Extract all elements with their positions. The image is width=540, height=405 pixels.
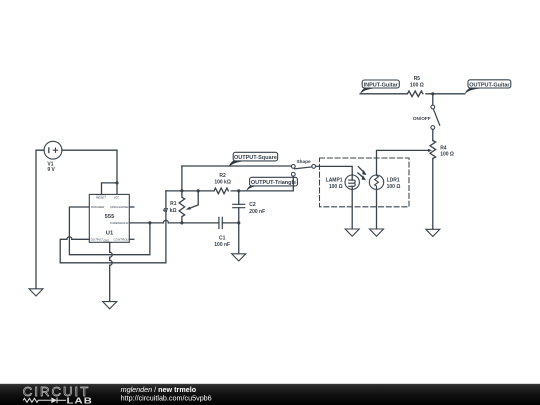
R1 label: [163, 201, 177, 214]
wire C1 node to ground: [238, 223, 240, 254]
svg-text:C2: C2: [249, 202, 256, 208]
U1 name labels: [105, 214, 115, 237]
R4 wiper arrowhead: [428, 149, 432, 152]
wire LAMP1 to ground: [351, 189, 353, 229]
wire TRIGGER to THRESHOLD loop: [69, 207, 149, 255]
svg-text:100 Ω: 100 Ω: [387, 184, 401, 190]
svg-text:9 V: 9 V: [47, 167, 55, 173]
svg-text:100 Ω: 100 Ω: [410, 83, 424, 89]
node VCC/RESET junction: [115, 181, 118, 184]
wire junction to ON/OFF switch: [432, 94, 434, 105]
ground G2: [103, 302, 117, 309]
wire hop GND over TRIGGER row: [110, 252, 113, 257]
op-amp U1 555 box: [89, 194, 129, 242]
svg-text:R1: R1: [170, 201, 177, 207]
svg-text:LAB: LAB: [67, 397, 94, 405]
svg-text:CONTROL: CONTROL: [114, 238, 129, 242]
U1 RESET overline: [96, 194, 105, 196]
photoresistor LDR1: [369, 175, 383, 189]
voltage source V1: [44, 141, 62, 159]
switch Shape SPDT: [291, 165, 315, 177]
C2 label: [249, 202, 265, 215]
footer bar: [0, 384, 540, 405]
node R1 wiper junction: [197, 189, 200, 192]
flag OUTPUT-Guitar: [465, 80, 511, 95]
ground G6: [426, 229, 440, 236]
wire through flag (redrawn over): [292, 176, 294, 186]
svg-text:100 Ω: 100 Ω: [440, 151, 454, 157]
LDR1 label: [387, 178, 401, 191]
svg-text:555: 555: [105, 214, 115, 220]
svg-text:Shape: Shape: [297, 159, 311, 164]
C1 label: [214, 236, 230, 248]
svg-text:GND: GND: [103, 240, 109, 243]
wire GND pin down: [109, 242, 111, 301]
wire OUTPUT loop: [60, 191, 166, 263]
wire THRESHOLD row: [129, 222, 238, 224]
svg-text:INPUT-Guitar: INPUT-Guitar: [364, 83, 399, 89]
wire Shape common to LAMP1: [316, 166, 353, 175]
svg-text:U1: U1: [106, 231, 114, 237]
wire hop GND over OUTPUT row: [110, 260, 113, 265]
svg-text:100 kΩ: 100 kΩ: [214, 180, 231, 186]
lamp LAMP1: [345, 175, 359, 189]
svg-text:LDR1: LDR1: [387, 178, 400, 184]
wire R4 to ground: [432, 159, 434, 230]
resistor R2: [214, 188, 228, 194]
R2 label: [214, 173, 231, 186]
svg-text:RESET: RESET: [96, 195, 107, 199]
svg-text:DISCHARGE: DISCHARGE: [110, 205, 129, 209]
wire hop on OUTPUT over TRIGGER: [67, 237, 72, 240]
svg-text:100 Ω: 100 Ω: [329, 184, 343, 190]
capacitor C2: [233, 204, 245, 207]
wire OUTPUT-Square row: [182, 165, 292, 167]
svg-text:LAMP1: LAMP1: [326, 178, 343, 184]
wire VCC column: [116, 150, 118, 194]
svg-text:TRIGGER: TRIGGER: [91, 205, 106, 209]
svg-text:R2: R2: [219, 173, 226, 179]
svg-text:THRESHOLD: THRESHOLD: [110, 221, 129, 225]
svg-text:R5: R5: [414, 76, 421, 82]
flag OUTPUT-Square: [228, 152, 277, 167]
svg-text:100 nF: 100 nF: [214, 242, 230, 248]
dashed enclosure box: [320, 158, 410, 207]
svg-text:47 kΩ: 47 kΩ: [163, 208, 177, 214]
wire RESET branch: [102, 183, 118, 195]
flag OUTPUT-Triangle: [246, 177, 297, 191]
resistor R1 potentiometer: [179, 166, 185, 223]
flag INPUT-Guitar: [360, 80, 399, 94]
wire V1 plus to VCC column: [62, 149, 117, 151]
LDR1 light arrows: [358, 167, 367, 181]
V1 label: [47, 161, 55, 172]
svg-text:http://circuitlab.com/cu5vpb6: http://circuitlab.com/cu5vpb6: [121, 393, 212, 402]
R1 wiper arrowhead: [186, 207, 191, 210]
U1 pin labels: [91, 195, 130, 242]
wire guitar row right: [426, 93, 465, 95]
switch ON/OFF SPST: [431, 105, 440, 129]
wire guitar row left: [360, 93, 407, 95]
wire hop THRESHOLD over OUTPUT vertical: [163, 220, 168, 223]
svg-text:ON/OFF: ON/OFF: [413, 116, 431, 121]
svg-text:OUTPUT-Guitar: OUTPUT-Guitar: [469, 82, 510, 88]
node R1 bottom junction: [180, 221, 183, 224]
wire LDR1 top to R4 wiper: [377, 150, 429, 175]
capacitor C1: [219, 217, 222, 228]
svg-text:OUTPUT-Triangle: OUTPUT-Triangle: [251, 180, 296, 186]
svg-text:200 nF: 200 nF: [249, 209, 265, 215]
node C2 bottom junction: [237, 221, 240, 224]
ground G4: [345, 229, 359, 236]
node THRESHOLD/TRIGGER junction: [148, 221, 151, 224]
svg-text:VCC: VCC: [114, 196, 119, 199]
R4 label: [440, 145, 454, 157]
R5 label: [410, 76, 424, 89]
wire C2 leads: [238, 191, 240, 223]
svg-text:OUTPUT: OUTPUT: [91, 238, 105, 242]
ground G5: [370, 229, 384, 236]
pin CONTROL stub: [129, 238, 134, 240]
svg-text:C1: C1: [219, 236, 226, 242]
logo resistor-diode glyph: [23, 398, 66, 404]
wire OUTPUT-Triangle row from X2 to Shape lower throw: [239, 176, 294, 191]
node R1 top junction: [180, 189, 183, 192]
wire V1 minus: [36, 150, 44, 289]
node X2 C2 top junction: [237, 189, 240, 192]
pin DISCHARGE stub: [129, 206, 134, 208]
wire switch to R4: [432, 129, 434, 140]
wire LDR1 to ground: [376, 189, 378, 229]
resistor R4 potentiometer: [430, 141, 436, 159]
wire R2 row: [166, 190, 239, 192]
resistor R5: [407, 91, 423, 97]
ground G3: [232, 254, 246, 261]
R1 wiper arm: [189, 191, 199, 209]
ground G1: [29, 289, 43, 296]
svg-text:OUTPUT-Square: OUTPUT-Square: [234, 155, 277, 161]
node guitar junction: [431, 92, 434, 95]
LAMP1 label: [326, 178, 343, 191]
